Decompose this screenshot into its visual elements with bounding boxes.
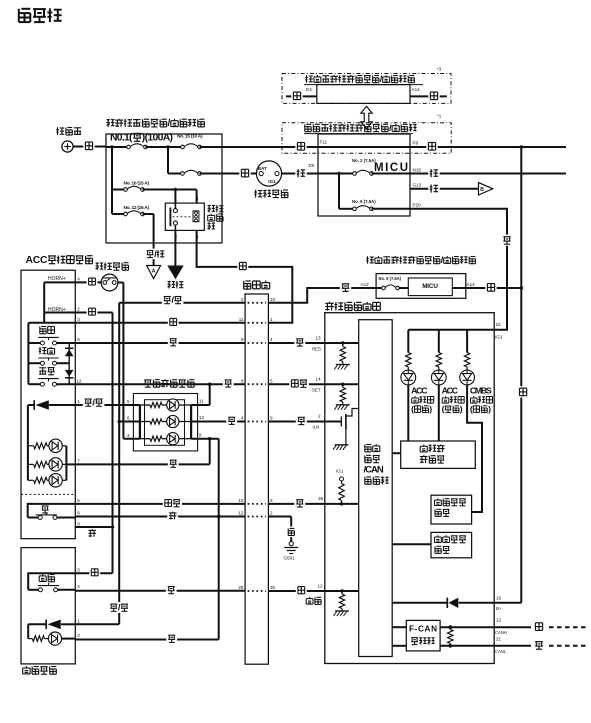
svg-text:MICU: MICU: [374, 162, 408, 174]
wire audio pin3 from V3: [123, 438, 139, 440]
wire 红/蓝 fuse No.12 to connector A: [145, 214, 166, 266]
wire 橙 ACC pin3 to cable reel pin11: [75, 317, 245, 328]
svg-text:9: 9: [199, 432, 202, 437]
svg-text:12: 12: [76, 378, 82, 383]
svg-text:4: 4: [270, 337, 273, 342]
resistor-button row 2 (audio): [140, 415, 191, 427]
svg-text:/CAN: /CAN: [364, 465, 384, 476]
resistor-button row 1 (audio): [140, 399, 191, 411]
indicator LED ACC 指示灯(橙色): [401, 330, 434, 441]
wire 绿 distance pin4 to cable reel pin29: [75, 585, 245, 596]
wire 白 fuse box to F11: [222, 141, 318, 152]
wire 淡绿 ACC pin5 to cable reel pin10: [75, 498, 245, 509]
wire P9 row through MICU box: [318, 146, 410, 148]
wire 红 audio pin12 to cable reel pin4: [191, 415, 245, 426]
svg-text:IG1: IG1: [495, 335, 503, 340]
distance switch box 距离开关: [21, 548, 75, 675]
svg-text:9: 9: [270, 416, 273, 421]
svg-text:(: (: [470, 404, 473, 414]
svg-text:11: 11: [199, 399, 204, 404]
wire 白 vertical bus (battery feed): [517, 145, 528, 603]
horn switch 喇叭开关: [96, 262, 129, 291]
svg-text:No. 5 (7.5A): No. 5 (7.5A): [352, 199, 376, 204]
connector triangle A: [147, 266, 161, 279]
wire 橙 relay pin3 to cable reel pin1: [197, 230, 293, 322]
svg-text:): ): [460, 404, 463, 414]
svg-text:4: 4: [241, 416, 244, 421]
svg-text:HORN+: HORN+: [48, 276, 66, 282]
wire 白 passenger box pin A14: [410, 87, 447, 102]
svg-text:14: 14: [316, 376, 322, 381]
svg-text:5: 5: [77, 498, 80, 503]
wire 灰 cable reel pin10 to A12: [268, 282, 376, 303]
svg-text:F-CAN: F-CAN: [409, 625, 437, 634]
svg-text:N0.1(: N0.1(: [110, 133, 133, 144]
svg-text:10: 10: [238, 498, 244, 503]
svg-text:30: 30: [270, 585, 276, 590]
resistor R-距离 with ground: [334, 591, 350, 616]
svg-text:P20: P20: [413, 202, 422, 207]
connector triangle B: [479, 183, 493, 195]
switch 距离 (distance): [28, 567, 112, 592]
svg-text:): ): [429, 404, 432, 414]
svg-text:G13: G13: [413, 182, 422, 187]
svg-text:29: 29: [238, 585, 244, 590]
svg-text:6: 6: [127, 416, 130, 421]
wire CANL to pin21: [440, 645, 494, 647]
svg-text:11: 11: [239, 317, 244, 322]
switch 取消 (cancel): [28, 347, 69, 366]
fuse No.12 (15A): [112, 205, 154, 216]
svg-text:ILN: ILN: [313, 425, 320, 430]
wire B+ pin16 to 白 bus: [494, 595, 521, 611]
wire 红 distance pin2 to V4: [75, 633, 218, 644]
svg-text:(: (: [411, 404, 414, 414]
indicator LED CMBS 指示灯(橙色): [460, 330, 493, 512]
svg-text:/: /: [168, 118, 171, 129]
svg-text:15: 15: [496, 322, 502, 327]
svg-text:3: 3: [77, 567, 80, 572]
svg-text:12: 12: [318, 583, 324, 588]
svg-text:B: B: [480, 187, 484, 193]
resistor R-IG1 inside module: [336, 469, 344, 506]
switch 恢复 (resume): [28, 323, 80, 384]
wire 白 A14 to bus: [452, 282, 523, 293]
wire 淡绿 cable reel pin5 to module pin14 SET: [268, 376, 324, 392]
svg-text:3: 3: [77, 317, 80, 322]
svg-text:IG1: IG1: [336, 469, 344, 474]
svg-text:1: 1: [77, 619, 80, 624]
svg-text:CMBS: CMBS: [470, 385, 492, 395]
svg-text:12: 12: [496, 617, 502, 622]
svg-text:10: 10: [270, 297, 276, 302]
diode D2 (cruise, down): [65, 363, 74, 384]
svg-text:BAT: BAT: [258, 166, 267, 171]
wire 绿 ACC pin12 to cable reel pin8: [75, 378, 245, 389]
svg-text:/: /: [154, 249, 157, 259]
svg-text:*1: *1: [437, 114, 442, 119]
svg-text:36: 36: [318, 496, 324, 501]
svg-text:A: A: [152, 268, 156, 274]
svg-text:)(100A): )(100A): [142, 133, 173, 144]
switch 主 (main): [28, 498, 81, 519]
svg-text:5: 5: [127, 399, 130, 404]
svg-text:13: 13: [316, 335, 322, 340]
svg-text:*3: *3: [437, 67, 442, 72]
wire audio pin9 down (V4): [191, 437, 219, 640]
svg-text:G501: G501: [284, 556, 296, 561]
svg-text:F11: F11: [320, 140, 328, 145]
audio remote switch box 音频遥控开关: [127, 379, 204, 451]
svg-text:1: 1: [270, 317, 273, 322]
resistor CAN termination: [448, 625, 453, 647]
connector double arrow between boxes: [361, 106, 372, 128]
svg-text:4: 4: [77, 277, 80, 282]
F-CAN transceiver box F-CAN收发器: [392, 620, 440, 651]
wire 红 ACC pin7 to audio pin9: [75, 439, 209, 469]
transistor Q1 (ILN gate) with ground: [325, 409, 359, 450]
svg-text:No. 15 (10 A): No. 15 (10 A): [177, 134, 203, 140]
svg-text:5: 5: [270, 378, 273, 383]
svg-text:CANH: CANH: [495, 630, 507, 635]
svg-text:2: 2: [77, 307, 80, 312]
wire 红 CANL pin21 external: [494, 636, 588, 654]
wire 蓝 G13 to connector B: [410, 183, 479, 194]
wire 黑 ACC pin9 stub: [75, 522, 114, 537]
instrument control module box 仪表控制模块: [325, 302, 494, 664]
indicator LED ACC 指示灯(绿色): [431, 330, 464, 441]
svg-text:D5: D5: [309, 163, 315, 168]
svg-text:/: /: [118, 602, 121, 613]
switch 设置 (set): [28, 368, 81, 387]
wire 白 P9 output row: [410, 141, 566, 152]
wire 蓝 ignition to driver box pin D5: [282, 163, 318, 179]
wire 黄 cable reel pin3 to module pin36: [268, 496, 358, 509]
svg-text:3: 3: [270, 498, 273, 503]
svg-text:8: 8: [77, 511, 80, 516]
wire 红 cable reel pin9 to module pin2 ILN: [268, 414, 324, 430]
under-hood fuse/relay box 发动机盖下保险/继电器盒: [106, 118, 222, 243]
LED with resistor (distance pin2): [28, 632, 80, 645]
driver's under-dash fuse/relay box (dashed) 驾驶席侧仪表板下保险/继电器: [282, 114, 451, 154]
svg-text:N15: N15: [413, 167, 422, 172]
title 电路图: [19, 8, 62, 22]
svg-text:A14: A14: [412, 87, 421, 92]
wire 绿/红 vertical (V2): [108, 294, 245, 624]
diode D3 (B+ feed): [392, 598, 494, 608]
svg-text:MICU: MICU: [422, 283, 438, 290]
MICU unit box (driver side): [318, 134, 422, 216]
resistor-button row 3 (audio): [140, 433, 191, 445]
wire RES row inside module: [325, 341, 359, 344]
svg-text:16: 16: [496, 595, 502, 600]
fuse No.5 (7.5A): [337, 172, 410, 211]
wire 白 CANH pin12 external: [494, 617, 588, 635]
wire audio pin6 from V2: [118, 420, 140, 423]
svg-text:12: 12: [199, 415, 205, 420]
svg-text:9: 9: [77, 522, 80, 527]
svg-text:A14: A14: [467, 282, 476, 287]
wire 绿 P20 to module pin 15 IG1 rail: [408, 209, 512, 340]
wire 橙 ACC pin2 down to distance switch (V1): [75, 306, 112, 573]
svg-text:4: 4: [77, 584, 80, 589]
svg-text:A12: A12: [361, 282, 370, 287]
svg-text:P9: P9: [413, 140, 419, 145]
resistor R-RES with ground: [334, 343, 350, 370]
svg-text:IG1: IG1: [268, 179, 276, 184]
svg-text:/: /: [92, 396, 95, 407]
svg-text:SET: SET: [312, 388, 321, 393]
alarm drive circuit box 报警驱动电路: [392, 441, 475, 468]
wire 灰 cable reel pin4 to module pin13 RES: [268, 335, 324, 351]
diode D5 (distance pin1): [28, 619, 119, 639]
switch HORN+ (pin 4): [44, 276, 80, 282]
svg-text:8: 8: [241, 378, 244, 383]
resistor R-SET with ground: [334, 384, 350, 410]
svg-text:2: 2: [241, 297, 244, 302]
indicator LEDs with resistors (ACC switch): [28, 405, 80, 487]
wire branch down to fuses No.10/No.12: [110, 145, 113, 214]
fail-safe circuit box 失效保护电路: [392, 532, 471, 557]
wire 黑 ACC pin8 to cable reel pin12: [75, 510, 245, 521]
svg-text:12: 12: [238, 511, 244, 516]
svg-text:No. 6 (7.5A): No. 6 (7.5A): [379, 276, 402, 281]
svg-text:ACC: ACC: [442, 385, 459, 395]
horn relay 喇叭继电器: [165, 197, 223, 241]
wire 白 battery to under-hood box: [73, 140, 106, 151]
MICU box (passenger side): [408, 278, 452, 296]
svg-text:6: 6: [77, 337, 80, 342]
svg-text:No. 2 (7.5A): No. 2 (7.5A): [352, 158, 376, 163]
wire relay pin4 branch: [196, 190, 198, 204]
power circuit / CAN controller box 电源电路/CAN控制器: [359, 320, 393, 657]
svg-text:/: /: [171, 294, 174, 305]
svg-text:1: 1: [77, 399, 80, 404]
svg-text:E3: E3: [306, 87, 312, 92]
diode D4 (ACC pin1): [28, 399, 80, 410]
cable reel 电缆盘: [238, 281, 275, 665]
svg-text:9: 9: [241, 337, 244, 342]
switch HORN+ (pin 2) and common: [28, 282, 80, 322]
fuse No.15 (10A): [177, 134, 222, 149]
wire 蓝 N15 output row: [410, 167, 566, 178]
svg-text:7: 7: [77, 459, 80, 464]
wire 橙 cable reel pin30 to module pin10 距离: [268, 583, 358, 604]
svg-text:1: 1: [174, 197, 177, 203]
svg-text:21: 21: [496, 636, 502, 641]
wire horn switch output down (V3): [118, 283, 124, 439]
svg-text:2: 2: [77, 633, 80, 638]
battery 蓄电池: [56, 127, 81, 152]
svg-text:ACC: ACC: [411, 385, 428, 395]
svg-text:3: 3: [127, 433, 130, 438]
wire relay pin2 to horn connector: [174, 230, 176, 265]
svg-text:RES: RES: [312, 346, 321, 351]
connector triangle 喇叭 (to horn): [167, 266, 183, 289]
svg-text:B+: B+: [496, 606, 502, 611]
force-on circuit box 强制开启电路: [431, 495, 472, 524]
svg-text:2: 2: [318, 414, 321, 419]
fuse N0.1(主)(100A): [106, 133, 183, 149]
fuse No.6 (7.5A): [376, 276, 408, 290]
fuse No.10 (15A): [112, 181, 197, 192]
svg-text:CANL: CANL: [495, 649, 507, 654]
svg-text:(: (: [442, 404, 445, 414]
passenger's under-dash fuse/relay box (dashed) 助手席仪表板下保险/继电器盒: [282, 67, 451, 104]
svg-text:4: 4: [196, 197, 199, 203]
fuse No.2 (7.5A): [318, 158, 410, 176]
wire branch to ignition feed fuse: [166, 145, 222, 175]
wire 白 to ignition switch: [222, 167, 256, 178]
ground G501 wire 棕: [268, 517, 298, 561]
wire 白 passenger box pin E3: [286, 87, 317, 102]
svg-text:ACC: ACC: [26, 255, 48, 266]
svg-text:): ): [488, 404, 491, 414]
wire relay pin1 branch: [174, 188, 177, 203]
wire 红 ACC pin6 to cable reel pin9: [75, 337, 245, 348]
svg-text:No. 10 (15 A): No. 10 (15 A): [124, 181, 150, 187]
wire audio pin11 up to 绿 row: [191, 384, 210, 405]
wire SET row inside module: [325, 383, 359, 386]
ACC combination switch box ACC组合灯开关: [21, 255, 93, 539]
diode D1 (cruise, up): [65, 343, 74, 363]
ignition switch 点火开关: [254, 161, 288, 198]
svg-text:No. 12 (15 A): No. 12 (15 A): [124, 205, 150, 211]
wire CANH to pin12: [440, 626, 494, 628]
wire 绿/红 ACC pin1 to audio switch pin5: [75, 396, 140, 407]
wire 橙 ACC pin4 to horn switch: [75, 276, 101, 287]
svg-text:2: 2: [270, 511, 273, 516]
passenger's under-dash fuse/relay box 助手席仪表板下保险/继电器盒 (lower): [366, 255, 475, 298]
